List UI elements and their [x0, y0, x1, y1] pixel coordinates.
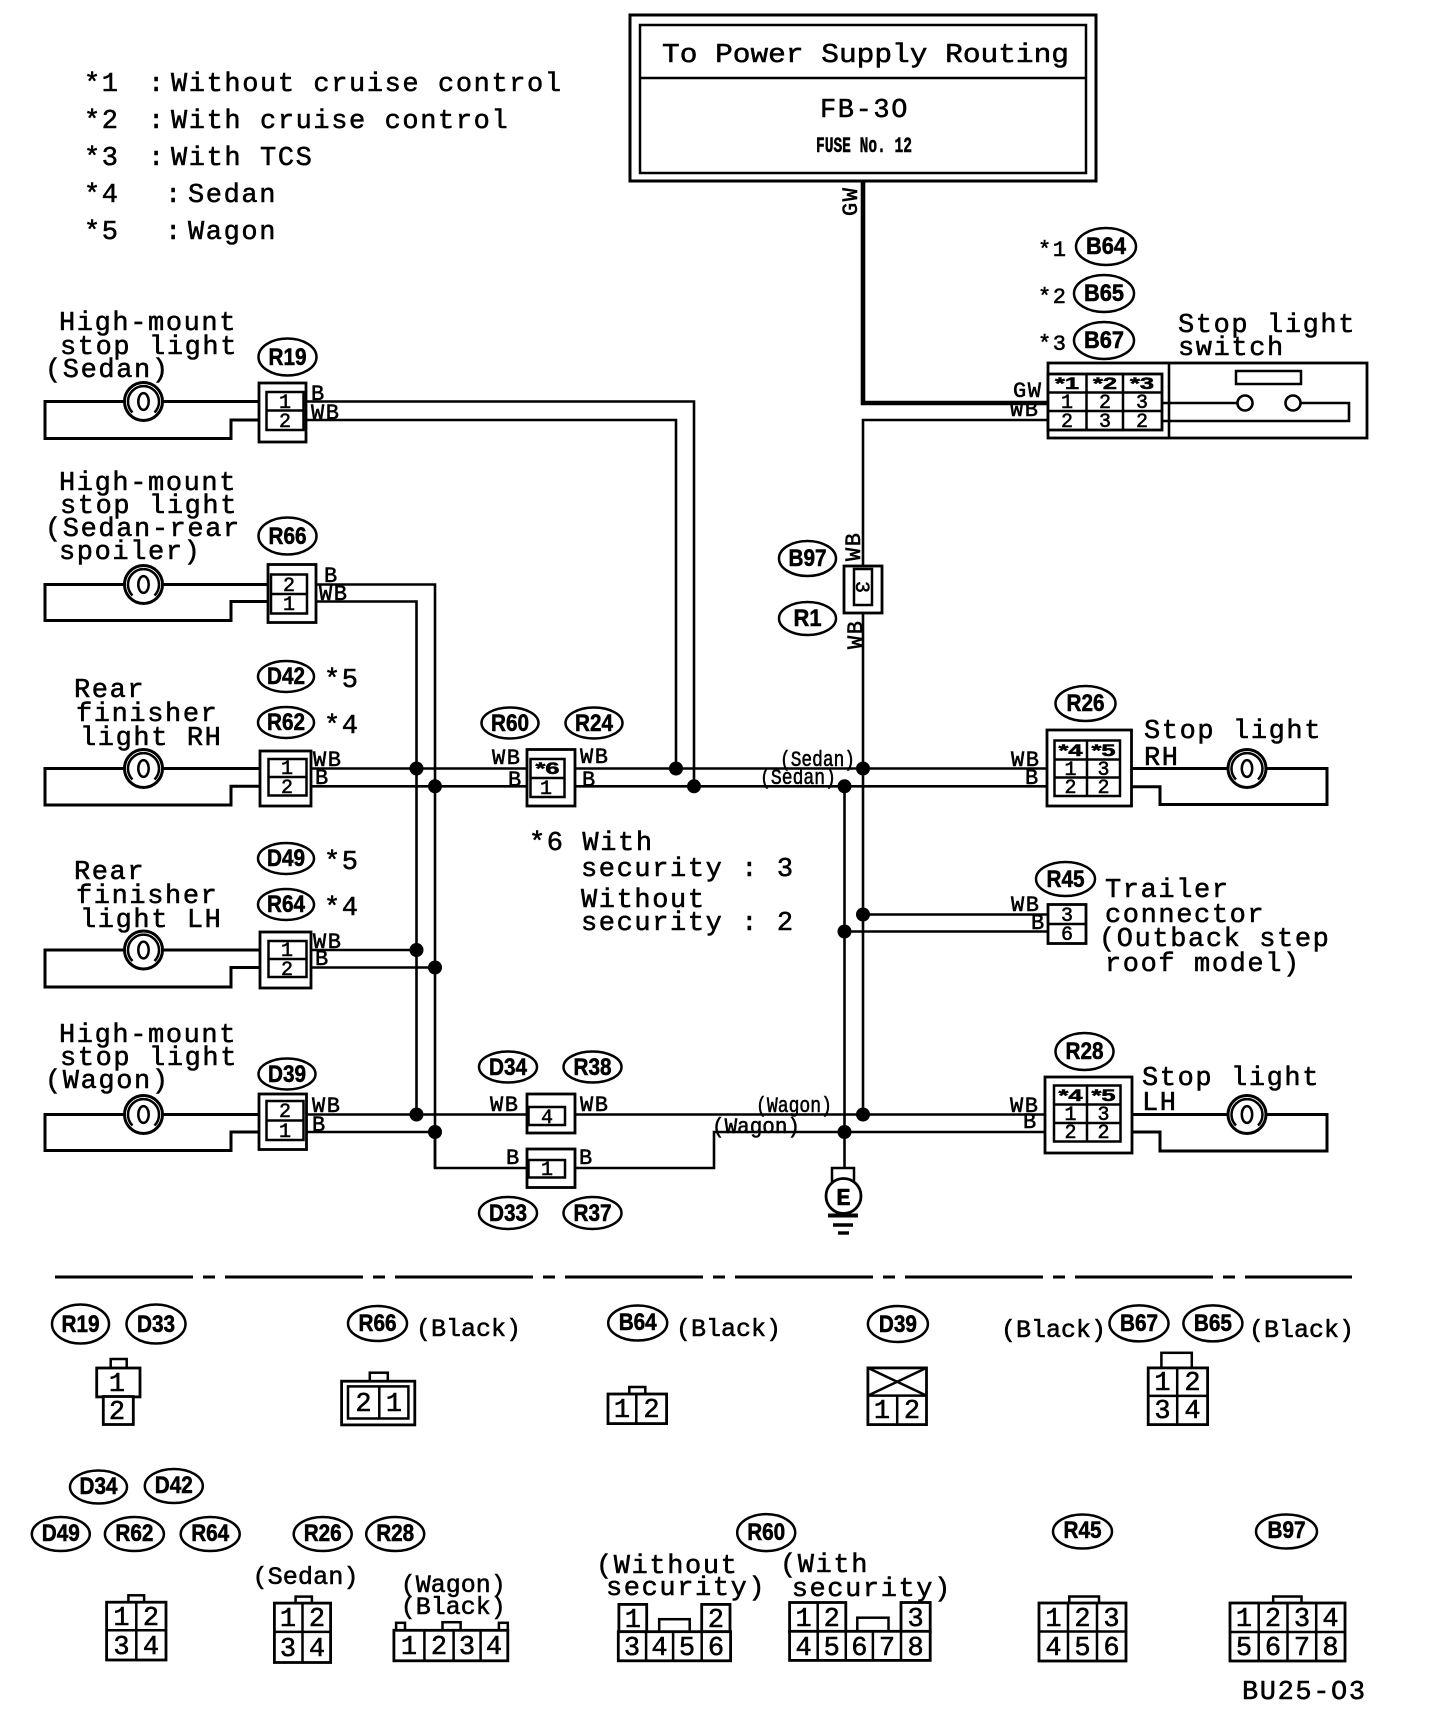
- svg-text:4: 4: [541, 1107, 553, 1130]
- svg-text:2: 2: [109, 1398, 125, 1428]
- svg-text:3: 3: [1103, 1605, 1119, 1635]
- svg-text:*4: *4: [84, 181, 120, 211]
- inline connector B97/R1 on WB vertical: [844, 566, 882, 613]
- svg-text:R66: R66: [269, 523, 307, 550]
- junction dot B row / B vertical: [838, 779, 852, 793]
- svg-text:*1: *1: [1055, 374, 1079, 393]
- svg-text:D33: D33: [489, 1200, 527, 1227]
- svg-text:R26: R26: [1067, 690, 1105, 717]
- note *1 legend: [84, 70, 563, 100]
- svg-text:*5: *5: [84, 218, 120, 248]
- svg-text:BU25-O3: BU25-O3: [1242, 1678, 1367, 1708]
- switch internal contacts and linkage: [1162, 371, 1349, 421]
- switch connector grid pins *1/*2/*3 1/2/3 2/3/2: [1048, 374, 1162, 434]
- svg-text:B: B: [1031, 911, 1046, 936]
- svg-text:*2: *2: [84, 107, 120, 137]
- svg-text:R28: R28: [376, 1520, 414, 1547]
- svg-text:B: B: [1025, 766, 1040, 791]
- svg-text:switch: switch: [1178, 334, 1285, 364]
- svg-text:B: B: [506, 1146, 521, 1171]
- junction dot B row / R19 branch: [687, 779, 701, 793]
- wire B from R19 pin1 down to B row: [306, 402, 694, 787]
- note *3 legend: [84, 144, 313, 174]
- svg-text:D39: D39: [268, 1061, 306, 1088]
- note *5 legend: [84, 218, 277, 248]
- svg-text:1: 1: [386, 1390, 402, 1420]
- svg-text:D33: D33: [137, 1311, 175, 1338]
- svg-text:B67: B67: [1084, 327, 1124, 354]
- wire WB branch to trailer connector: [863, 913, 1048, 916]
- svg-text:B97: B97: [789, 545, 827, 572]
- svg-text:1: 1: [1236, 1605, 1252, 1635]
- svg-text:2: 2: [279, 411, 291, 434]
- svg-text:R62: R62: [115, 1520, 153, 1547]
- junction dot wagon WB row / R66 bus: [410, 1108, 424, 1122]
- svg-text:B: B: [315, 766, 330, 791]
- label (With security): [780, 1551, 952, 1605]
- connector R64 body pins 1/2: [260, 932, 311, 988]
- svg-text:6: 6: [851, 1634, 867, 1664]
- svg-text:2: 2: [1184, 1369, 1200, 1399]
- connector D39 body pins 2/1: [259, 1094, 307, 1150]
- svg-text:*2: *2: [1093, 374, 1117, 393]
- svg-text:1: 1: [283, 594, 295, 617]
- wire WB from switch to main vertical: [863, 420, 1048, 1115]
- wire B wagon row segment from D39 to bus: [307, 1131, 436, 1134]
- svg-text:2: 2: [904, 1397, 920, 1427]
- note *6 with/without security: [529, 829, 795, 939]
- connector label R66 (pinout section): [348, 1306, 407, 1341]
- junction dot LH WB row: [410, 943, 424, 957]
- pinout B67/B65 connector pins 1/2/3/4: [1148, 1353, 1207, 1427]
- svg-text:R24: R24: [575, 710, 614, 737]
- connector label B65 (pinout section): [1183, 1305, 1242, 1341]
- ground E: [826, 1168, 861, 1233]
- svg-text:Stop light: Stop light: [1144, 717, 1322, 747]
- svg-text:WB: WB: [844, 620, 869, 649]
- svg-text:1: 1: [540, 778, 552, 801]
- svg-text:5: 5: [824, 1634, 840, 1664]
- svg-text:Sedan: Sedan: [188, 181, 277, 211]
- junction dot WB row / main vertical: [856, 762, 870, 776]
- svg-text:R19: R19: [62, 1311, 100, 1338]
- label High-mount stop light (Sedan-rear spoiler): [45, 469, 241, 568]
- svg-text:3: 3: [624, 1634, 640, 1664]
- svg-text:security : 3: security : 3: [581, 855, 795, 885]
- svg-text:6: 6: [708, 1634, 724, 1664]
- connector label R45 (pinout section): [1053, 1515, 1112, 1549]
- svg-text:*4: *4: [324, 712, 360, 742]
- svg-text:D49: D49: [267, 845, 305, 872]
- svg-text:4: 4: [143, 1633, 159, 1663]
- svg-text:B: B: [312, 1113, 327, 1138]
- svg-text:*5: *5: [1092, 1086, 1116, 1105]
- svg-text:1: 1: [614, 1396, 630, 1426]
- svg-text:security : 2: security : 2: [581, 909, 795, 939]
- junction dot LH B row: [428, 961, 442, 975]
- svg-text:WB: WB: [842, 532, 867, 561]
- high-mount wagon lamp loop: [45, 1115, 259, 1151]
- svg-text:(Black): (Black): [416, 1315, 521, 1344]
- svg-text:7: 7: [1294, 1634, 1310, 1664]
- svg-text:2: 2: [1097, 777, 1109, 800]
- svg-text:D42: D42: [267, 663, 305, 690]
- svg-text:B65: B65: [1084, 280, 1124, 307]
- power supply box FB-30 FUSE No.12: [630, 15, 1096, 181]
- connector label B65 with *2: [1038, 275, 1134, 312]
- connector label R1: [779, 602, 836, 635]
- wire GW from fuse box to stop light switch (bold): [863, 181, 1048, 403]
- svg-text:3: 3: [459, 1633, 475, 1663]
- svg-text:WB: WB: [319, 582, 348, 607]
- svg-text:1: 1: [625, 1606, 641, 1636]
- svg-text:5: 5: [1074, 1634, 1090, 1664]
- svg-text:3: 3: [113, 1633, 129, 1663]
- svg-text::: :: [148, 144, 166, 174]
- pinout B97 connector pins 1/2/3/4 5/6/7/8: [1230, 1597, 1345, 1665]
- svg-text:B: B: [579, 1146, 594, 1171]
- svg-text:light RH: light RH: [80, 724, 222, 754]
- svg-text:1: 1: [874, 1397, 890, 1427]
- svg-text:6: 6: [1061, 924, 1073, 947]
- pinout B64 connector pins 1/2: [608, 1387, 667, 1426]
- svg-text:6: 6: [1103, 1634, 1119, 1664]
- svg-text:D42: D42: [155, 1472, 193, 1499]
- connector label R64 *4: [258, 889, 360, 924]
- wire WB from R64 to bus: [311, 949, 417, 952]
- connector R26 grid pins *4/*5 1/3 2/2: [1047, 730, 1132, 806]
- svg-text:Without cruise control: Without cruise control: [171, 70, 563, 100]
- svg-text:3: 3: [280, 1635, 296, 1665]
- connector label B64 (pinout section): [608, 1306, 667, 1341]
- wire WB wagon row from D39 to stop light LH: [307, 1113, 1046, 1116]
- svg-text:4: 4: [486, 1633, 502, 1663]
- svg-text:*1: *1: [1038, 238, 1067, 263]
- svg-text:*6: *6: [536, 759, 560, 778]
- connector label R60: [482, 708, 539, 739]
- svg-text:D34: D34: [80, 1473, 119, 1500]
- joint connector *6 (R60/R24): [527, 750, 575, 807]
- wire B from R64 to bus: [311, 966, 435, 969]
- svg-text:4: 4: [651, 1634, 667, 1664]
- svg-text:4: 4: [1322, 1605, 1338, 1635]
- wire WB bus from R66 pin1 down to wagon row: [316, 602, 417, 1115]
- connector label R28 (pinout section): [366, 1517, 424, 1551]
- svg-text:2: 2: [708, 1606, 724, 1636]
- svg-text:B67: B67: [1120, 1310, 1158, 1337]
- svg-text:B: B: [508, 768, 523, 793]
- svg-text:R26: R26: [304, 1520, 342, 1547]
- svg-text:WB: WB: [580, 1093, 609, 1118]
- svg-text:4: 4: [309, 1635, 325, 1665]
- svg-text:*5: *5: [324, 666, 360, 696]
- junction dot B row / R66 bus: [428, 779, 442, 793]
- junction dot wagon WB row / main vertical: [856, 1108, 870, 1122]
- wire B bus from R66 pin2 down to wagon row: [316, 585, 435, 1169]
- svg-text:*3: *3: [1130, 374, 1154, 393]
- connector label D39 (pinout section): [868, 1306, 928, 1342]
- svg-text:R37: R37: [574, 1200, 612, 1227]
- svg-text:2: 2: [1061, 411, 1073, 434]
- connector label B97: [779, 541, 836, 576]
- connector label D42 *5: [258, 661, 360, 696]
- connector label R45: [1036, 862, 1095, 896]
- svg-text::: :: [165, 181, 183, 211]
- svg-text:2: 2: [824, 1605, 840, 1635]
- svg-text:3: 3: [907, 1605, 923, 1635]
- svg-text:GW: GW: [839, 187, 864, 216]
- svg-text:2: 2: [281, 959, 293, 982]
- svg-text:R38: R38: [574, 1054, 612, 1081]
- svg-text:(Sedan): (Sedan): [760, 766, 836, 791]
- svg-text:(Black): (Black): [676, 1315, 781, 1344]
- svg-text:R66: R66: [359, 1310, 397, 1337]
- svg-text:3: 3: [1154, 1397, 1170, 1427]
- connector label B67 with *3: [1038, 322, 1134, 359]
- svg-text:B: B: [1023, 1110, 1038, 1135]
- svg-text::: :: [165, 218, 183, 248]
- svg-text:1: 1: [795, 1605, 811, 1635]
- svg-text:B64: B64: [1086, 233, 1127, 260]
- connector label R37: [564, 1197, 622, 1229]
- svg-text:2: 2: [1097, 1122, 1109, 1145]
- stop light LH lamp loop: [1132, 1115, 1327, 1152]
- svg-text:1: 1: [279, 1121, 291, 1144]
- joint connector 1 (D33/R37) on wagon B link: [527, 1149, 575, 1188]
- joint connector 4 (D34/R38) on wagon WB row: [527, 1094, 575, 1133]
- svg-text:With cruise control: With cruise control: [171, 107, 509, 137]
- svg-text:B97: B97: [1268, 1517, 1306, 1544]
- connector label D49 (pinout section): [32, 1517, 90, 1551]
- svg-text:*2: *2: [1038, 285, 1067, 310]
- svg-text:(Wagon): (Wagon): [712, 1115, 800, 1140]
- svg-text:8: 8: [907, 1634, 923, 1664]
- rear finisher LH lamp loop: [45, 950, 260, 987]
- svg-text:WB: WB: [580, 745, 609, 770]
- label Trailer connector (Outback step roof model): [1099, 876, 1330, 980]
- svg-text:1: 1: [1154, 1369, 1170, 1399]
- svg-text:R45: R45: [1047, 866, 1085, 893]
- svg-text:3: 3: [849, 581, 872, 593]
- svg-text:4: 4: [1184, 1397, 1200, 1427]
- connector label B67 (pinout section): [1110, 1305, 1169, 1341]
- svg-text:2: 2: [1064, 777, 1076, 800]
- svg-text:R1: R1: [794, 605, 822, 632]
- connector label R64 (pinout section): [181, 1517, 240, 1551]
- wire B sedan row from R62 to stop light RH: [311, 785, 1047, 788]
- svg-text:*4: *4: [1059, 1086, 1084, 1105]
- junction dot WB row / R66 bus: [410, 762, 424, 776]
- wire B main vertical from sedan B row to ground: [843, 786, 846, 1168]
- pinout wagon black connector pins 1/2/3/4: [394, 1622, 508, 1663]
- svg-text:3: 3: [1099, 411, 1111, 434]
- high-mount rear spoiler lamp loop: [45, 585, 268, 621]
- connector label R66: [259, 518, 317, 555]
- connector label R19 (pinout section): [52, 1305, 109, 1344]
- connector label R26: [1056, 686, 1116, 721]
- svg-text:R64: R64: [191, 1520, 230, 1547]
- connector label R62 (pinout section): [105, 1517, 164, 1551]
- wire B branch to trailer connector: [845, 930, 1049, 933]
- connector label R19: [259, 339, 317, 376]
- connector label R38: [564, 1052, 622, 1083]
- pinout D39 connector with blanked cell and pins 1/2: [868, 1368, 927, 1427]
- lamp bulb high-mount sedan: [125, 383, 163, 421]
- svg-text:*1: *1: [84, 70, 120, 100]
- svg-text:*3: *3: [84, 144, 120, 174]
- svg-text:(Wagon): (Wagon): [45, 1067, 170, 1097]
- connector label R62 *4: [258, 707, 360, 742]
- connector label R24: [566, 708, 623, 739]
- svg-text:FB-3O: FB-3O: [820, 96, 909, 126]
- svg-text:R64: R64: [267, 891, 306, 918]
- svg-text:5: 5: [679, 1634, 695, 1664]
- svg-text:spoiler): spoiler): [59, 538, 201, 568]
- svg-text:(Sedan): (Sedan): [253, 1563, 359, 1592]
- svg-text:security): security): [606, 1574, 766, 1604]
- svg-text:B: B: [315, 947, 330, 972]
- label (Without security): [596, 1552, 766, 1604]
- note *4 legend: [84, 181, 277, 211]
- svg-text:2: 2: [643, 1396, 659, 1426]
- junction dot wagon B row / ground branch: [838, 1125, 852, 1139]
- svg-text:FUSE No. 12: FUSE No. 12: [816, 134, 912, 159]
- svg-text:R60: R60: [747, 1519, 785, 1546]
- junction dot trailer WB branch: [856, 908, 870, 922]
- connector label D34 (pinout section): [70, 1471, 127, 1504]
- lamp bulb high-mount wagon: [125, 1096, 163, 1134]
- svg-text:R28: R28: [1066, 1038, 1104, 1065]
- svg-text::: :: [148, 107, 166, 137]
- svg-text::: :: [148, 70, 166, 100]
- label Rear finisher light RH: [74, 676, 222, 754]
- connector label R28: [1056, 1033, 1114, 1070]
- wire WB sedan row from R62 to stop light RH: [311, 767, 1047, 770]
- lamp bulb stop light RH: [1228, 750, 1266, 788]
- pinout R45 connector pins 1/2/3 4/5/6: [1039, 1597, 1126, 1665]
- svg-text:7: 7: [879, 1634, 895, 1664]
- pinout R66 connector pins 2/1: [342, 1373, 415, 1425]
- label High-mount stop light (Sedan): [45, 309, 238, 386]
- svg-text:1: 1: [541, 1159, 553, 1182]
- svg-text:WB: WB: [311, 401, 340, 426]
- svg-text:3: 3: [1294, 1605, 1310, 1635]
- note *2 legend: [84, 107, 509, 137]
- svg-text:8: 8: [1322, 1634, 1338, 1664]
- svg-text:(Black): (Black): [401, 1593, 506, 1622]
- wire WB from R19 pin2 down to WB row: [306, 420, 676, 769]
- svg-text:2: 2: [1064, 1122, 1076, 1145]
- svg-text:*3: *3: [1038, 332, 1067, 357]
- connector label D33 (pinout section): [127, 1305, 186, 1344]
- high-mount stop light sedan lamp loop: [45, 402, 259, 439]
- svg-text:6: 6: [1265, 1634, 1281, 1664]
- stop light RH lamp loop: [1132, 769, 1328, 805]
- svg-text:*4: *4: [324, 894, 360, 924]
- pinout R26/R28 sedan connector pins 1/2/3/4: [274, 1597, 330, 1665]
- connector label D42 (pinout section): [145, 1469, 203, 1503]
- connector label B97 (pinout section): [1256, 1515, 1317, 1549]
- svg-text:R60: R60: [491, 710, 529, 737]
- label Rear finisher light LH: [74, 858, 222, 936]
- label Stop light RH: [1144, 717, 1322, 774]
- svg-text:(Black): (Black): [1249, 1316, 1354, 1345]
- svg-text:Wagon: Wagon: [188, 218, 277, 248]
- pinout D34/D42/D49/R62/R64 connector pins 1/2/3/4: [107, 1595, 166, 1663]
- svg-text:With TCS: With TCS: [171, 144, 313, 174]
- svg-text:2: 2: [431, 1633, 447, 1663]
- svg-text:D34: D34: [489, 1054, 528, 1081]
- svg-text:1: 1: [1045, 1605, 1061, 1635]
- svg-text:roof model): roof model): [1105, 950, 1301, 980]
- svg-text:B64: B64: [619, 1309, 658, 1336]
- svg-text:2: 2: [1265, 1605, 1281, 1635]
- svg-text:*5: *5: [324, 848, 360, 878]
- stop light switch body: [1048, 363, 1367, 438]
- label (Wagon) (Black) pinout: [401, 1571, 506, 1622]
- connector label D39: [259, 1059, 316, 1090]
- svg-text:1: 1: [401, 1633, 417, 1663]
- junction dot wagon B row / R66 bus: [428, 1125, 442, 1139]
- connector label D34: [479, 1052, 537, 1083]
- pinout R60 with security pins 1/2/3 4/5/6/7/8: [790, 1603, 931, 1665]
- connector R66 body pins 2/1: [268, 565, 316, 623]
- label Stop light LH: [1142, 1064, 1320, 1119]
- connector label D49 *5: [258, 843, 360, 878]
- lamp bulb rear spoiler: [125, 566, 163, 604]
- svg-text:R45: R45: [1064, 1517, 1102, 1544]
- svg-text:2: 2: [355, 1390, 371, 1420]
- svg-text:R62: R62: [267, 709, 305, 736]
- svg-text:2: 2: [143, 1604, 159, 1634]
- svg-text:1: 1: [109, 1370, 125, 1400]
- svg-text:(Sedan): (Sedan): [45, 356, 170, 386]
- connector R19 body pins 1/2: [259, 383, 306, 442]
- junction dot trailer B branch: [838, 925, 852, 939]
- svg-text:2: 2: [309, 1605, 325, 1635]
- svg-text:4: 4: [795, 1634, 811, 1664]
- svg-text:R19: R19: [269, 344, 307, 371]
- svg-text:1: 1: [113, 1604, 129, 1634]
- svg-text:2: 2: [1136, 411, 1148, 434]
- pinout R60 without security pins 1/2 3/4/5/6: [618, 1604, 730, 1664]
- svg-text:D39: D39: [879, 1311, 917, 1338]
- connector label B64 with *1: [1038, 228, 1136, 265]
- lamp bulb rear finisher LH: [125, 931, 163, 969]
- svg-text:B65: B65: [1194, 1310, 1232, 1337]
- lamp bulb rear finisher RH: [125, 750, 163, 788]
- svg-text:*5: *5: [1092, 741, 1116, 760]
- svg-text:4: 4: [1045, 1634, 1061, 1664]
- connector R28 grid pins *4/*5 1/3 2/2: [1045, 1077, 1132, 1153]
- svg-text:E: E: [836, 1186, 850, 1213]
- svg-text:2: 2: [1074, 1605, 1090, 1635]
- connector label R60 (pinout section): [737, 1514, 795, 1551]
- rear finisher RH lamp loop: [45, 769, 260, 806]
- pinout R19/D33 two-pin connector: [97, 1359, 140, 1428]
- connector label R26 (pinout section): [294, 1517, 352, 1551]
- wire B wagon link through joint connector: [435, 1132, 1045, 1168]
- separator dash-dot line: [55, 1276, 1352, 1279]
- lamp bulb stop light LH: [1228, 1096, 1266, 1134]
- svg-text:B: B: [582, 768, 597, 793]
- svg-text:WB: WB: [490, 1093, 519, 1118]
- svg-text:D49: D49: [42, 1520, 80, 1547]
- svg-text:5: 5: [1236, 1634, 1252, 1664]
- svg-text:(Black): (Black): [1001, 1316, 1106, 1345]
- svg-text:2: 2: [281, 777, 293, 800]
- trailer connector body pins 3/6: [1048, 905, 1086, 948]
